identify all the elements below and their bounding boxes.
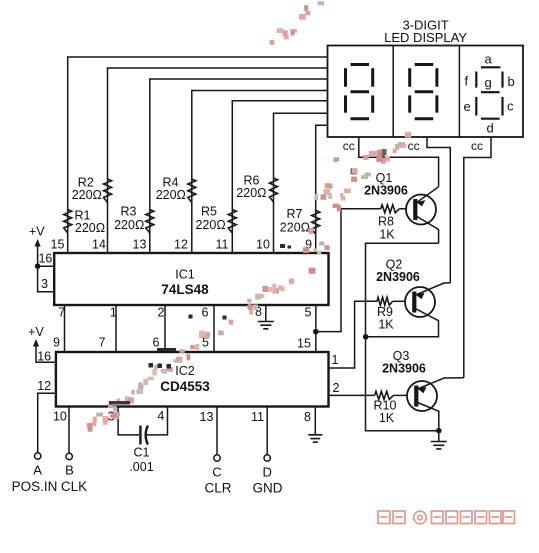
svg-text:+V: +V [29, 225, 45, 239]
svg-text:13: 13 [133, 238, 147, 252]
LED display box [328, 46, 524, 138]
svg-text:A: A [33, 463, 42, 478]
resistor R3 220ohm [114, 205, 154, 234]
ground collector bus [431, 431, 447, 449]
wire IC2 pin13 to terminal C [216, 407, 218, 455]
svg-text:220Ω: 220Ω [280, 221, 310, 235]
wire IC1 pin16 [38, 265, 55, 267]
svg-text:cc: cc [471, 139, 483, 153]
IC1 pin 2 to IC2 pin 6 wire [153, 305, 165, 352]
svg-text:10: 10 [256, 238, 270, 252]
resistor R7 220ohm [280, 207, 320, 235]
terminal C circle [214, 455, 220, 461]
svg-text:11: 11 [216, 238, 229, 252]
wire IC2 pin2 to R10 [329, 394, 375, 396]
svg-text:16: 16 [37, 350, 51, 364]
7-segment digit 2 [410, 65, 437, 119]
wire cc1 to Q1 emitter [359, 137, 439, 187]
svg-text:D: D [263, 465, 272, 480]
svg-text:12: 12 [174, 238, 188, 252]
svg-text:1K: 1K [379, 228, 395, 242]
op-amp IC1 74LS48 box [54, 253, 328, 305]
node junction pin5 [313, 329, 319, 335]
ground IC2 pin8 [308, 407, 322, 443]
wire segment display line 7 [316, 125, 328, 253]
svg-text:R3: R3 [121, 205, 137, 219]
svg-text:7: 7 [99, 336, 106, 350]
svg-text:220Ω: 220Ω [156, 188, 186, 202]
svg-text:11: 11 [251, 410, 264, 424]
wire segment display line 4 [192, 91, 328, 254]
node junction +V/pin16 [35, 263, 41, 269]
svg-text:2: 2 [333, 381, 340, 395]
svg-text:CLK: CLK [61, 479, 87, 494]
svg-text:1K: 1K [379, 411, 395, 425]
svg-text:3: 3 [41, 277, 48, 291]
node junction Q2 collector [363, 334, 369, 340]
wire segment display line 3 [150, 79, 328, 253]
svg-text:c: c [507, 99, 514, 114]
wire segment display line 2 [108, 68, 328, 253]
resistor R8 1K [378, 205, 406, 242]
svg-text:C1: C1 [134, 446, 150, 460]
svg-text:+V: +V [28, 325, 44, 339]
svg-text:1: 1 [332, 353, 339, 367]
wire segment display line 1 [68, 57, 328, 253]
resistor R2 220ohm [72, 176, 112, 203]
IC1 pin 6 to IC2 pin 5 wire [202, 305, 214, 352]
resistor R9 1K [377, 297, 405, 331]
wire IC2 pin10 to terminal B [68, 407, 70, 454]
wire IC2 pin1 to R9 [329, 301, 378, 368]
svg-text:IC1: IC1 [175, 268, 195, 282]
node junction Q3 collector/ground [436, 428, 442, 434]
resistor R5 220ohm [195, 205, 236, 234]
transistor Q3 2N3906 [382, 349, 464, 431]
svg-text:6: 6 [202, 306, 209, 320]
wire segment display line 5 [232, 101, 327, 253]
terminal A circle [35, 453, 41, 459]
resistor R4 220ohm [156, 176, 196, 203]
svg-text:220Ω: 220Ω [195, 218, 225, 232]
svg-text:5: 5 [305, 306, 312, 320]
capacitor C1 [129, 426, 153, 475]
IC1 pin 7 to IC2 pin 9 wire [53, 305, 65, 352]
+V supply IC2 [28, 325, 56, 362]
wire pin5 node to R8 [316, 209, 381, 332]
svg-text:R8: R8 [378, 215, 394, 229]
wire to IC1 pin3 [38, 266, 55, 292]
resistor R6 220ohm [236, 174, 277, 203]
svg-text:a: a [485, 52, 493, 67]
svg-text:2: 2 [158, 306, 165, 320]
svg-text:220Ω: 220Ω [75, 221, 105, 235]
svg-text:220Ω: 220Ω [72, 188, 102, 202]
transistor Q1 2N3906 [364, 171, 438, 243]
svg-text:R5: R5 [201, 205, 217, 219]
capacitor C1 wires [118, 407, 167, 435]
wire cc2 to Q2 emitter [427, 137, 450, 283]
+V supply IC1 [29, 225, 45, 267]
svg-text:12: 12 [37, 379, 51, 393]
svg-text:8: 8 [304, 410, 311, 424]
wire Q1 collector to bus [366, 243, 439, 430]
svg-text:9: 9 [53, 336, 60, 350]
wire cc3 to Q3 emitter [464, 137, 491, 378]
transistor Q2 2N3906 [366, 258, 451, 337]
svg-text:B: B [65, 463, 74, 478]
wire IC2 pin11 to terminal D [266, 407, 268, 455]
svg-text:LED DISPLAY: LED DISPLAY [384, 30, 467, 45]
svg-text:C: C [212, 465, 221, 480]
svg-text:g: g [485, 75, 492, 90]
svg-text:2N3906: 2N3906 [364, 184, 408, 198]
segment label cell [464, 52, 515, 136]
svg-text:GND: GND [253, 481, 283, 496]
svg-text:15: 15 [51, 238, 65, 252]
IC1 pin 1 to IC2 pin 7 wire [99, 305, 117, 352]
svg-text:CD4553: CD4553 [160, 379, 210, 394]
svg-text:220Ω: 220Ω [236, 186, 266, 200]
resistor R1 220ohm [64, 209, 105, 236]
terminal D circle [264, 455, 270, 461]
svg-text:b: b [508, 74, 515, 89]
svg-text:14: 14 [92, 238, 106, 252]
ground IC1 pin8 [258, 305, 274, 329]
svg-text:74LS48: 74LS48 [161, 282, 209, 297]
svg-text:cc: cc [343, 139, 355, 153]
svg-text:d: d [487, 121, 494, 136]
svg-text:f: f [465, 74, 469, 89]
wire segment display line 6 [274, 113, 328, 253]
resistor R10 1K [374, 391, 408, 425]
svg-text:13: 13 [200, 410, 214, 424]
svg-text:cc: cc [408, 139, 420, 153]
wire IC2 pin12 to terminal A [38, 393, 56, 453]
svg-text:1K: 1K [378, 318, 394, 332]
svg-text:CLR: CLR [204, 481, 231, 496]
svg-text:e: e [464, 99, 471, 114]
svg-text:2N3906: 2N3906 [382, 362, 426, 376]
svg-text:220Ω: 220Ω [114, 218, 144, 232]
op-amp IC2 CD4553 box [56, 352, 329, 407]
svg-text:16: 16 [38, 252, 52, 266]
svg-text:R7: R7 [287, 207, 303, 221]
svg-text:15: 15 [297, 337, 311, 351]
svg-text:6: 6 [153, 336, 160, 350]
svg-text:POS.IN: POS.IN [12, 479, 58, 494]
terminal B circle [66, 453, 72, 459]
svg-text:10: 10 [53, 410, 67, 424]
wire IC1 pin5 to IC2 pin15 [315, 305, 317, 352]
svg-text:2N3906: 2N3906 [376, 270, 420, 284]
svg-text:4: 4 [157, 409, 164, 423]
svg-text:IC2: IC2 [175, 364, 195, 378]
svg-text:.001: .001 [129, 460, 153, 474]
7-segment digit 1 [346, 65, 373, 119]
